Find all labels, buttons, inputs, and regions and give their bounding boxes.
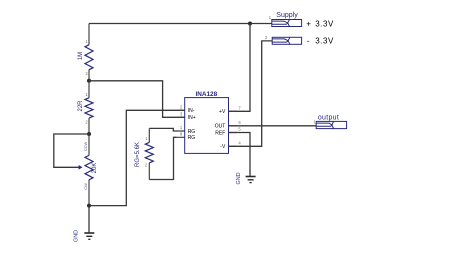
connector J1 supply pin 1	[269, 15, 302, 26]
node A divider junction	[87, 79, 91, 83]
wire RG pin 8 to gain resistor bottom	[149, 137, 176, 179]
svg-text:-V: -V	[220, 144, 226, 150]
svg-text:RG=5.6K: RG=5.6K	[135, 142, 141, 167]
ground GND1	[73, 230, 94, 242]
svg-text:OUT: OUT	[215, 124, 226, 130]
svg-text:CCW: CCW	[83, 142, 88, 152]
pin stubs	[177, 110, 185, 137]
potentiometer R3 20K	[79, 134, 98, 206]
node B pot top junction	[87, 132, 91, 136]
wire pot wiper loop	[54, 134, 89, 167]
svg-text:INA128: INA128	[195, 91, 217, 98]
svg-text:+: +	[306, 19, 311, 28]
wire -V pin 4 to -3.3V supply pin 2	[229, 41, 273, 146]
svg-text:output: output	[318, 114, 339, 121]
svg-text:IN+: IN+	[188, 115, 196, 121]
label -3.3V	[307, 37, 334, 46]
connector J2 supply pin 2	[265, 35, 302, 44]
wire ground node to IN- pin 2	[89, 110, 185, 205]
svg-text:GND: GND	[73, 230, 79, 242]
ground GND2	[236, 172, 256, 184]
svg-text:REF: REF	[215, 130, 225, 136]
op-amp U1 INA128	[177, 91, 242, 153]
svg-text:-: -	[307, 37, 310, 46]
resistor R1 1M	[78, 24, 93, 81]
wire REF pin 5 to ground	[229, 133, 251, 177]
connector J3 output	[314, 119, 347, 128]
wire OUT pin 6 to output connector	[229, 125, 317, 127]
svg-text:1M: 1M	[78, 52, 84, 60]
svg-text:CW: CW	[83, 183, 88, 190]
resistor R4 RG=5.6K	[135, 128, 154, 179]
svg-text:20K: 20K	[92, 163, 98, 174]
wire top rail from 1M top to Supply pin 1	[89, 23, 272, 25]
wire RG pin 1 to gain resistor top	[149, 128, 176, 131]
wire +3.3V rail down to +V pin 7	[229, 24, 251, 112]
svg-text:22R: 22R	[78, 100, 84, 112]
svg-text:RG: RG	[188, 135, 196, 141]
node +3.3V junction	[248, 22, 252, 26]
label +3.3V	[306, 19, 334, 28]
resistor R2 22R	[78, 81, 93, 134]
svg-text:3.3V: 3.3V	[315, 19, 334, 28]
svg-text:Supply: Supply	[276, 12, 298, 19]
node C pot bottom / ground junction	[87, 204, 91, 208]
svg-text:RG: RG	[188, 129, 196, 135]
svg-text:+V: +V	[219, 109, 226, 115]
wire divider node to IN+ pin 3	[89, 81, 185, 118]
svg-text:3.3V: 3.3V	[315, 37, 334, 46]
wire ground stub	[88, 206, 90, 233]
svg-text:IN-: IN-	[188, 108, 195, 114]
svg-text:GND: GND	[236, 172, 242, 184]
